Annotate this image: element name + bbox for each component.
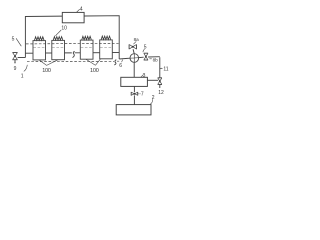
wire box 3 to valve 12 — [147, 79, 158, 81]
label 8a leader — [133, 41, 136, 44]
wire stub below valve 12 — [159, 85, 161, 89]
svg-text:11: 11 — [163, 66, 168, 72]
label 4 leader — [76, 9, 79, 12]
condenser box 4 — [62, 12, 84, 22]
wire stub valve8a to blower — [133, 49, 134, 53]
label 2 leader — [150, 99, 152, 104]
wire top bypass duct left segment — [25, 16, 62, 57]
svg-text:9: 9 — [14, 66, 17, 72]
dashed inner line U3 — [81, 46, 93, 48]
tank box 2 — [116, 105, 151, 115]
dashed inner line U1 — [33, 46, 45, 48]
valve left inlet damper — [12, 53, 17, 60]
svg-text:3: 3 — [143, 73, 146, 79]
wire inlet pipe — [18, 57, 26, 59]
wire box 3 to valve 7 — [133, 86, 135, 92]
box 3 — [121, 77, 148, 86]
dashed base line lower — [27, 60, 119, 63]
label 11 tilde — [160, 67, 163, 70]
adsorption unit box U3 — [80, 40, 93, 59]
label 1 leader — [24, 65, 28, 72]
break mark on connector — [73, 51, 75, 57]
wire blower to box 3 — [133, 62, 135, 77]
wire connector U2-U3 — [65, 52, 81, 54]
svg-text:6: 6 — [119, 63, 122, 69]
label 5 top-left leader — [16, 38, 21, 46]
wire top bypass duct right segment — [84, 16, 119, 59]
svg-text:8b: 8b — [153, 57, 159, 62]
svg-text:12: 12 — [158, 90, 164, 96]
svg-text:5: 5 — [12, 37, 15, 43]
adsorption unit box U2 — [52, 40, 65, 59]
svg-text:4: 4 — [80, 7, 83, 13]
svg-text:100: 100 — [90, 68, 99, 74]
valve 8a — [129, 44, 136, 49]
heater zigzag U2 — [53, 37, 63, 41]
svg-text:10: 10 — [61, 26, 67, 32]
label 10 leader — [55, 30, 61, 36]
arrow inlet air — [14, 62, 16, 64]
label 3 leader — [141, 75, 144, 78]
heater zigzag U4 — [101, 36, 111, 40]
dashed inner line U2 — [52, 46, 64, 48]
dashed level line upper — [26, 42, 119, 45]
label 6 leader — [122, 60, 123, 63]
label 7 leader dash — [138, 93, 140, 95]
svg-text:100: 100 — [42, 68, 51, 74]
valve 8b hourglass — [144, 53, 148, 60]
svg-text:7: 7 — [141, 92, 144, 98]
wire connector U3-U4 — [93, 52, 100, 54]
adsorption unit box U4 — [100, 40, 113, 59]
wire exhaust riser right — [159, 57, 161, 78]
label 8b leader dash — [149, 58, 151, 60]
label 5 right leader — [143, 49, 145, 52]
svg-text:8a: 8a — [134, 37, 140, 42]
valve 12 hourglass — [158, 78, 162, 85]
brace leaders pair 1 — [39, 60, 58, 66]
blower cross — [130, 54, 139, 63]
svg-text:2: 2 — [152, 95, 155, 101]
adsorption unit box U1 — [33, 41, 46, 60]
dashed inner line U4 — [100, 46, 112, 48]
valve 7 — [131, 92, 138, 96]
wire connector U4 to riser — [112, 52, 119, 54]
wire inlet stub below valve — [14, 60, 16, 63]
wire stub riser to unit 1 — [25, 52, 33, 54]
brace leaders pair 2 — [86, 59, 101, 65]
svg-text:1: 1 — [21, 74, 24, 80]
blower 6 circle — [130, 54, 139, 63]
heater zigzag U1 — [34, 37, 44, 41]
wire connector U1-U2 — [46, 52, 52, 54]
break mark on lower dashed line — [114, 60, 116, 65]
wire valve 7 to tank 2 — [133, 95, 135, 104]
wire pump line — [119, 57, 160, 59]
heater zigzag U3 — [82, 36, 92, 40]
